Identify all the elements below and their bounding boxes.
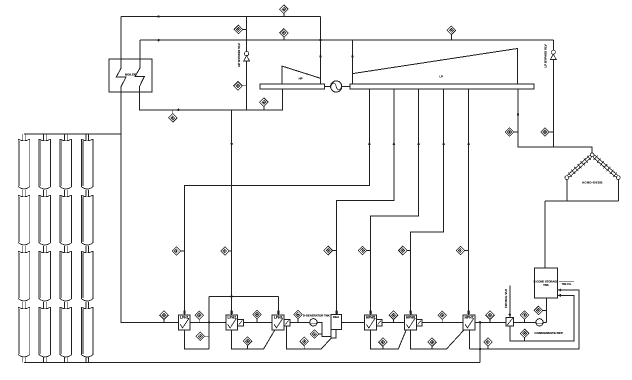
- svg-text:HP BYPASS VLV: HP BYPASS VLV: [237, 43, 241, 67]
- svg-text:LP BYPASS VLV: LP BYPASS VLV: [544, 44, 548, 67]
- svg-text:HPH5: HPH5: [366, 316, 375, 320]
- svg-text:DEA: DEA: [333, 315, 340, 319]
- svg-text:ACND-DESB: ACND-DESB: [582, 180, 603, 184]
- svg-text:HP: HP: [299, 77, 303, 81]
- svg-text:LPH2: LPH2: [228, 316, 237, 320]
- svg-text:LP: LP: [439, 74, 443, 78]
- svg-text:HPH6: HPH6: [406, 316, 415, 320]
- svg-text:BOILER: BOILER: [125, 73, 137, 77]
- svg-text:TNK LVL: TNK LVL: [562, 283, 572, 286]
- svg-text:LPH1: LPH1: [180, 316, 189, 320]
- svg-text:D-DEAERATOR TNK: D-DEAERATOR TNK: [303, 314, 330, 318]
- svg-text:LPH3: LPH3: [274, 316, 283, 320]
- svg-text:CONDENSATE BFP: CONDENSATE BFP: [534, 331, 562, 335]
- svg-text:HPH7: HPH7: [465, 316, 474, 320]
- svg-text:FW ISOL VLV: FW ISOL VLV: [504, 289, 508, 308]
